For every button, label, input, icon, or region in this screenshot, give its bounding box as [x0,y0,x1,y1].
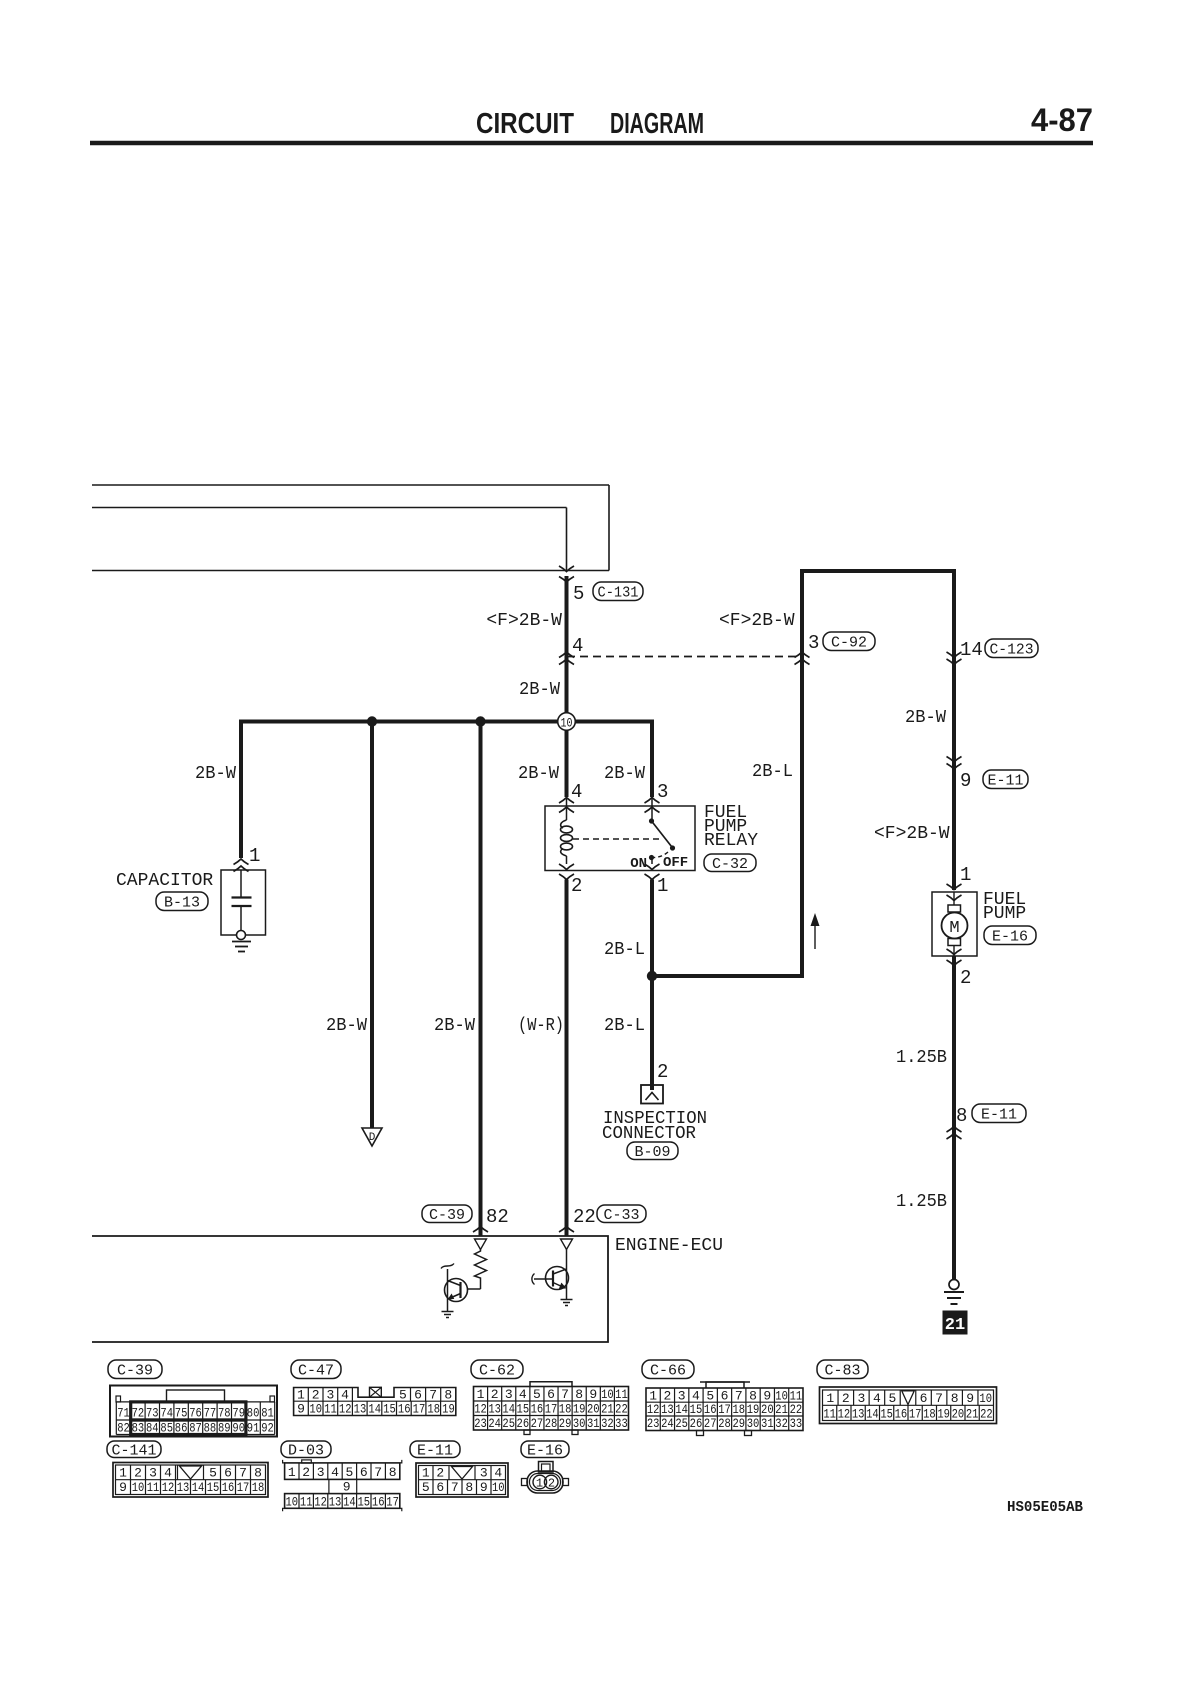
svg-text:87: 87 [189,1421,202,1436]
bus wire [241,720,652,724]
connector arrows C-123 pin 14 [947,652,962,658]
svg-text:1: 1 [477,1387,485,1402]
svg-text:10: 10 [132,1480,145,1495]
svg-text:75: 75 [175,1406,188,1421]
svg-text:27: 27 [531,1416,544,1431]
svg-text:84: 84 [146,1421,159,1436]
svg-text:7: 7 [239,1465,247,1480]
svg-text:E-16: E-16 [992,929,1028,946]
svg-text:22: 22 [980,1406,993,1421]
svg-text:7: 7 [935,1391,943,1406]
svg-text:1: 1 [536,1476,543,1490]
svg-text:1: 1 [119,1465,127,1480]
connector C-131 label [593,582,643,601]
svg-text:CONNECTOR: CONNECTOR [602,1124,696,1144]
svg-text:<F>2B-W: <F>2B-W [874,824,950,844]
connector B-09 label [627,1142,678,1160]
wire C-92 link to fuel pump [952,569,956,890]
svg-text:82: 82 [117,1421,130,1436]
arrow into ECU pin 22 [559,1227,574,1233]
svg-text:1.25B: 1.25B [896,1048,947,1068]
svg-text:6: 6 [414,1387,422,1402]
connector C-62 label [471,1360,523,1379]
relay pin 3 arrow outside [645,798,660,804]
svg-text:8: 8 [465,1480,473,1495]
svg-text:18: 18 [559,1401,572,1416]
fuel pump box E-16 [932,892,977,956]
svg-text:10: 10 [492,1480,505,1495]
svg-text:3: 3 [505,1387,513,1402]
ground G1 [949,1280,959,1290]
svg-text:31: 31 [761,1416,774,1431]
svg-text:10: 10 [309,1402,322,1417]
svg-text:2B-W: 2B-W [905,708,946,728]
svg-text:C-33: C-33 [604,1207,640,1224]
svg-text:CAPACITOR: CAPACITOR [116,871,213,891]
svg-text:11: 11 [300,1494,313,1509]
relay pin 2 arrow outside [559,874,574,880]
wire C-131 to junction 10 [565,576,569,713]
dashed wire to C-92 [567,656,802,658]
connector C-83 keyway [902,1391,915,1405]
svg-text:OFF: OFF [663,855,688,871]
connector D-03 label [281,1441,331,1458]
relay switch SW1 [649,818,654,823]
svg-text:24: 24 [661,1416,674,1431]
capacitor pin 1 arrows [234,859,249,865]
svg-text:4: 4 [164,1465,172,1480]
svg-text:10: 10 [286,1494,299,1509]
svg-text:88: 88 [204,1421,217,1436]
svg-text:ON: ON [630,856,647,872]
svg-text:E-11: E-11 [981,1107,1017,1124]
svg-text:4: 4 [341,1387,349,1402]
svg-text:<F>2B-W: <F>2B-W [719,611,795,631]
svg-text:14: 14 [343,1494,356,1509]
connector arrow C-131 pin 5 [559,577,574,583]
svg-text:83: 83 [132,1421,145,1436]
svg-text:9: 9 [480,1480,488,1495]
svg-text:13: 13 [661,1402,674,1417]
svg-text:15: 15 [383,1402,396,1417]
inspection connector symbol [641,1085,663,1104]
wire junction to inspection connector [650,976,654,1090]
svg-text:14: 14 [866,1406,879,1421]
connector D-03 pinout [302,1460,312,1463]
svg-text:11: 11 [823,1406,836,1421]
wire bus to capacitor [239,720,243,859]
svg-text:13: 13 [852,1406,865,1421]
svg-text:19: 19 [937,1406,950,1421]
svg-text:C-39: C-39 [429,1207,465,1224]
connector C-83 label [817,1360,868,1379]
svg-text:3: 3 [149,1465,157,1480]
svg-text:21: 21 [966,1406,979,1421]
svg-text:17: 17 [386,1494,399,1509]
svg-text:3: 3 [326,1387,334,1402]
svg-text:C-39: C-39 [117,1363,153,1380]
wire from harness to C-131 [92,507,567,509]
connector B-13 label [156,892,208,911]
harness box bottom edge [92,570,609,572]
svg-text:HS05E05AB: HS05E05AB [1007,1499,1083,1516]
svg-text:4: 4 [571,781,582,803]
connector E-11 label [983,770,1028,789]
connector C-32 label [704,854,756,872]
svg-text:(W-R): (W-R) [518,1016,564,1036]
capacitor ground [232,941,251,943]
wire bus to ECU pin 82 [479,722,483,1237]
svg-text:30: 30 [747,1416,760,1431]
connector C-62 pinout [530,1382,572,1387]
relay pin 1 arrow outside [645,874,660,880]
svg-text:12: 12 [314,1494,327,1509]
svg-text:<F>2B-W: <F>2B-W [486,611,562,631]
svg-text:25: 25 [502,1416,515,1431]
svg-text:12: 12 [162,1480,175,1495]
svg-text:5: 5 [345,1465,353,1480]
svg-text:9: 9 [966,1391,974,1406]
svg-text:14: 14 [675,1402,688,1417]
svg-text:2B-W: 2B-W [518,764,559,784]
wire junction 10 to relay pin 4 [565,730,569,797]
capacitor B-13 box [221,870,266,935]
svg-text:19: 19 [573,1401,586,1416]
svg-text:12: 12 [838,1406,851,1421]
svg-text:1: 1 [826,1391,834,1406]
svg-text:26: 26 [690,1416,703,1431]
svg-text:8: 8 [254,1465,262,1480]
svg-text:ENGINE-ECU: ENGINE-ECU [615,1236,723,1256]
relay pin 1 arrow inside [651,858,653,865]
relay pin 3 arrow inside [645,807,660,813]
relay pin 4 arrow inside [559,807,574,813]
svg-text:17: 17 [718,1402,731,1417]
wire relay pin 1 to junction [650,880,654,977]
svg-text:5: 5 [533,1387,541,1402]
svg-text:72: 72 [132,1406,145,1421]
svg-text:4: 4 [331,1465,339,1480]
svg-text:9: 9 [589,1387,597,1402]
ECU pin 82 entry triangle [475,1239,487,1250]
svg-text:30: 30 [573,1416,586,1431]
svg-text:33: 33 [790,1416,803,1431]
svg-text:27: 27 [704,1416,717,1431]
connector E-11 label [972,1104,1026,1123]
svg-text:22: 22 [573,1206,596,1228]
connector C-123 label [985,639,1038,658]
svg-text:90: 90 [232,1421,245,1436]
svg-text:6: 6 [224,1465,232,1480]
junction dot C [647,971,657,981]
svg-text:3: 3 [657,781,668,803]
connector E-16 pinout [539,1462,554,1473]
svg-text:81: 81 [261,1406,274,1421]
svg-text:79: 79 [232,1406,245,1421]
svg-text:74: 74 [160,1406,173,1421]
svg-text:8: 8 [575,1387,583,1402]
svg-text:21: 21 [601,1401,614,1416]
connector C-39 pinout [110,1386,277,1437]
svg-text:2: 2 [312,1387,320,1402]
connector C-141 pinout [113,1463,268,1498]
svg-text:22: 22 [615,1401,628,1416]
connector arrows at C-92 dashed branch [559,652,574,658]
svg-text:85: 85 [160,1421,173,1436]
svg-text:76: 76 [189,1406,202,1421]
relay internal dashed link [573,838,661,840]
wire bus to relay pin 3 [650,720,654,798]
connector C-92 label [823,632,875,651]
svg-text:10: 10 [979,1391,992,1406]
svg-text:18: 18 [732,1402,745,1417]
svg-text:12: 12 [647,1402,660,1417]
transistor Q1 [467,1288,481,1290]
svg-text:78: 78 [218,1406,231,1421]
svg-text:17: 17 [237,1480,250,1495]
svg-text:B-09: B-09 [635,1144,671,1161]
svg-text:2B-W: 2B-W [519,680,560,700]
svg-text:91: 91 [247,1421,260,1436]
svg-text:18: 18 [427,1402,440,1417]
svg-text:2: 2 [960,967,971,989]
relay pin 4 arrow outside [559,798,574,804]
svg-text:13: 13 [177,1480,190,1495]
svg-text:7: 7 [561,1387,569,1402]
svg-text:20: 20 [952,1406,965,1421]
svg-text:2: 2 [571,875,582,897]
svg-text:13: 13 [354,1402,367,1417]
svg-text:2: 2 [548,1476,555,1490]
svg-text:C-131: C-131 [598,585,639,602]
connector E-16 label [984,926,1036,945]
svg-text:77: 77 [204,1406,217,1421]
svg-text:26: 26 [517,1416,530,1431]
svg-text:14: 14 [502,1401,515,1416]
svg-text:16: 16 [398,1402,411,1417]
svg-text:C-62: C-62 [479,1363,515,1380]
svg-text:2: 2 [657,1061,668,1083]
svg-text:4: 4 [519,1387,527,1402]
svg-text:32: 32 [775,1416,788,1431]
svg-text:8: 8 [951,1391,959,1406]
svg-text:5: 5 [573,583,584,605]
svg-text:2: 2 [842,1391,850,1406]
resistor R1 [475,1250,487,1290]
svg-text:3: 3 [317,1465,325,1480]
svg-text:9: 9 [960,770,971,792]
current direction arrow [814,922,816,949]
svg-text:5: 5 [399,1387,407,1402]
svg-text:DIAGRAM: DIAGRAM [610,108,704,140]
svg-text:11: 11 [324,1402,337,1417]
connector arrow at harness exit [559,566,574,572]
fuel pump pin 2 arrow [947,960,962,966]
svg-text:E-16: E-16 [527,1443,563,1460]
svg-text:14: 14 [368,1402,381,1417]
connector C-47 label [291,1360,341,1379]
svg-text:22: 22 [790,1402,803,1417]
svg-text:1: 1 [288,1465,296,1480]
connector E-11 pinout [416,1463,508,1497]
svg-text:11: 11 [615,1387,628,1402]
svg-text:15: 15 [207,1480,220,1495]
connector arrows E-11 pin 8 [947,1127,962,1133]
svg-text:28: 28 [718,1416,731,1431]
svg-text:1: 1 [249,845,260,867]
connector C-39 label [422,1205,472,1223]
svg-text:10: 10 [561,716,573,731]
svg-text:2: 2 [436,1465,444,1480]
svg-text:1: 1 [657,875,668,897]
svg-text:7: 7 [374,1465,382,1480]
svg-text:C-123: C-123 [990,642,1034,659]
svg-text:2: 2 [134,1465,142,1480]
svg-text:23: 23 [647,1416,660,1431]
svg-text:2B-L: 2B-L [752,762,793,782]
top link wire [800,569,956,573]
svg-text:32: 32 [601,1416,614,1431]
connector C-66 pinout [706,1382,744,1388]
junction 10 circle [558,713,576,731]
svg-text:D: D [369,1132,376,1144]
connector E-11 label [410,1441,460,1458]
svg-text:9: 9 [343,1479,351,1494]
svg-text:80: 80 [247,1406,260,1421]
svg-text:7: 7 [451,1480,459,1495]
svg-text:2B-L: 2B-L [604,940,645,960]
ENGINE-ECU box [92,1236,608,1342]
svg-text:4-87: 4-87 [1031,102,1093,138]
svg-text:31: 31 [587,1416,600,1431]
svg-text:C-83: C-83 [825,1363,861,1380]
svg-text:3: 3 [808,632,819,654]
svg-text:17: 17 [413,1402,426,1417]
connector E-11 keyway [452,1467,473,1480]
svg-text:92: 92 [261,1421,274,1436]
svg-text:2B-W: 2B-W [604,764,645,784]
relay coil L1 [561,820,567,828]
svg-text:71: 71 [117,1406,130,1421]
svg-text:C-92: C-92 [831,635,867,652]
svg-text:15: 15 [517,1401,530,1416]
svg-text:6: 6 [547,1387,555,1402]
svg-text:23: 23 [474,1416,487,1431]
svg-text:4: 4 [494,1465,502,1480]
harness box top edge [92,484,609,486]
svg-text:2B-W: 2B-W [195,764,236,784]
svg-text:13: 13 [329,1494,342,1509]
node D triangle [362,1128,382,1146]
connector C-83 pinout [820,1387,997,1424]
svg-text:73: 73 [146,1406,159,1421]
wire junction to C-92 riser [652,974,802,978]
transistor Q2 ground [561,1299,573,1301]
connector C-141 label [107,1441,161,1458]
connector C-33 label [597,1205,646,1223]
svg-text:RELAY: RELAY [704,831,758,851]
svg-text:PUMP: PUMP [983,904,1026,924]
svg-text:17: 17 [545,1401,558,1416]
fuel pump pin 1 arrow [947,884,962,890]
svg-text:6: 6 [360,1465,368,1480]
svg-text:5: 5 [209,1465,217,1480]
svg-text:13: 13 [488,1401,501,1416]
svg-text:89: 89 [218,1421,231,1436]
svg-text:86: 86 [175,1421,188,1436]
svg-text:8: 8 [444,1387,452,1402]
transistor Q2 [566,1250,568,1300]
arrow into ECU pin 82 [473,1227,488,1233]
svg-text:8: 8 [389,1465,397,1480]
connector C-47 pinout [294,1388,456,1416]
svg-text:16: 16 [222,1480,235,1495]
svg-text:CIRCUIT: CIRCUIT [476,108,574,140]
svg-text:C-32: C-32 [712,856,748,873]
wire bus to node D [370,722,374,1129]
svg-text:11: 11 [147,1480,160,1495]
svg-text:17: 17 [909,1406,922,1421]
header rule [90,141,1093,146]
connector arrows E-11 pin 9 [947,757,962,763]
ground reference 21 box [943,1311,967,1334]
svg-text:2B-W: 2B-W [326,1016,367,1036]
svg-text:4: 4 [572,635,583,657]
svg-text:25: 25 [675,1416,688,1431]
svg-text:10: 10 [601,1387,614,1402]
svg-text:19: 19 [747,1402,760,1417]
svg-text:16: 16 [372,1494,385,1509]
svg-text:C-141: C-141 [112,1443,157,1460]
svg-text:8: 8 [956,1105,967,1127]
fuel pump motor M1 [953,892,955,905]
svg-text:M: M [949,919,959,938]
svg-text:20: 20 [587,1401,600,1416]
svg-text:7: 7 [429,1387,437,1402]
harness box right edge [608,485,610,571]
svg-text:B-13: B-13 [164,895,200,912]
svg-text:E-11: E-11 [417,1443,453,1460]
svg-text:1: 1 [960,864,971,886]
connector C-66 label [642,1360,694,1379]
svg-text:12: 12 [474,1401,487,1416]
junction dot A [367,716,377,726]
svg-text:9: 9 [119,1480,127,1495]
svg-text:28: 28 [545,1416,558,1431]
svg-text:4: 4 [873,1391,881,1406]
svg-text:D-03: D-03 [288,1443,324,1460]
svg-text:E-11: E-11 [988,773,1024,790]
connector C-141 keyway [180,1466,202,1479]
capacitor element C1 [240,870,242,898]
svg-text:12: 12 [339,1402,352,1417]
svg-text:19: 19 [442,1402,455,1417]
svg-text:C-47: C-47 [298,1363,334,1380]
svg-text:14: 14 [192,1480,205,1495]
svg-text:15: 15 [358,1494,371,1509]
transistor Q1 ground [442,1311,454,1313]
svg-text:1: 1 [422,1465,430,1480]
svg-text:15: 15 [690,1402,703,1417]
svg-text:5: 5 [889,1391,897,1406]
connector E-16 label [521,1441,569,1458]
connector C-39 label [108,1360,162,1379]
svg-text:C-66: C-66 [650,1363,686,1380]
svg-text:82: 82 [486,1206,509,1228]
svg-text:21: 21 [945,1316,965,1335]
svg-text:29: 29 [559,1416,572,1431]
connector arrows C-92 pin 3 [795,652,810,658]
